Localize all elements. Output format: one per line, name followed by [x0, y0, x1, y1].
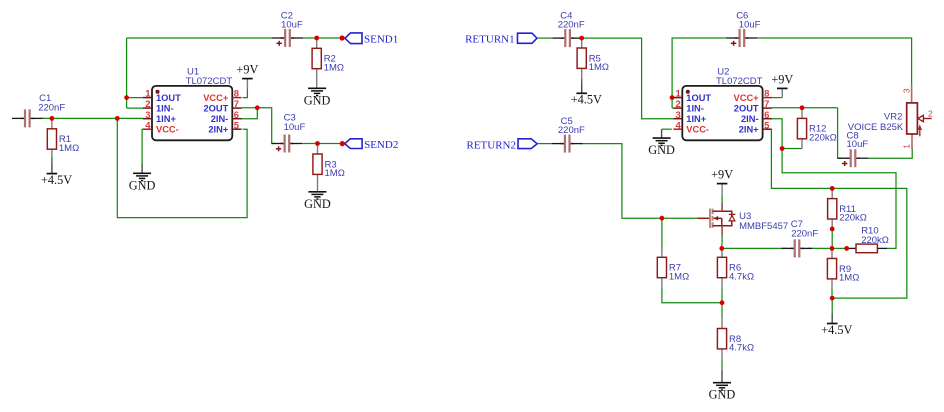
- wire C8 to VR2 pin1: [868, 148, 912, 158]
- svg-text:220kΩ: 220kΩ: [809, 132, 837, 143]
- wire R9 leads: [831, 248, 833, 258]
- wire U3 drain +9V: [721, 184, 723, 196]
- svg-text:4: 4: [145, 120, 151, 131]
- svg-text:220nF: 220nF: [558, 20, 585, 31]
- power +9V: [236, 63, 258, 79]
- wire R2 leads: [316, 38, 318, 48]
- resistor R9: [827, 259, 859, 284]
- wire U2 pin7 to C8 and VR2: [772, 107, 838, 109]
- capacitor C5: [552, 116, 585, 153]
- svg-text:7: 7: [764, 99, 769, 110]
- resistor R11: [828, 199, 867, 224]
- resistor R3: [313, 154, 345, 179]
- svg-text:5: 5: [234, 120, 240, 131]
- svg-text:3: 3: [145, 110, 150, 121]
- capacitor C2: [272, 10, 303, 47]
- svg-text:10uF: 10uF: [284, 122, 306, 133]
- junction end dot SEND2: [340, 141, 345, 146]
- svg-text:+9V: +9V: [236, 63, 258, 77]
- resistor R2: [312, 48, 344, 73]
- resistor R8: [717, 329, 754, 354]
- wire U2 pin8 to +9V: [772, 97, 783, 99]
- wire U2 +9V stem: [781, 89, 783, 98]
- svg-text:6: 6: [234, 110, 239, 121]
- op-amp U1 TL072CDT: [143, 67, 242, 141]
- svg-text:GND: GND: [129, 178, 156, 192]
- wire C6 to VR2 pin3: [757, 38, 912, 85]
- svg-text:VCC-: VCC-: [156, 125, 179, 135]
- svg-text:10uF: 10uF: [281, 19, 303, 30]
- resistor R7: [657, 257, 689, 282]
- svg-text:MMBF5457: MMBF5457: [739, 221, 788, 232]
- resistor R10: [856, 226, 889, 253]
- ground below R2: [304, 88, 331, 107]
- svg-text:SEND1: SEND1: [364, 34, 398, 46]
- capacitor C7: [782, 219, 819, 258]
- wire pin6 to R12 bottom: [782, 148, 802, 150]
- svg-text:4: 4: [676, 120, 682, 131]
- power +4.5V: [41, 173, 72, 187]
- wire U3 source to C7: [722, 247, 788, 249]
- wire RETURN2 to C5: [537, 143, 552, 145]
- svg-text:1: 1: [145, 89, 151, 100]
- junction J U3 source: [719, 246, 724, 251]
- svg-text:+4.5V: +4.5V: [821, 323, 852, 337]
- svg-text:1IN-: 1IN-: [686, 104, 704, 114]
- capacitor C4: [552, 11, 585, 48]
- svg-text:8: 8: [764, 89, 769, 100]
- svg-text:1MΩ: 1MΩ: [59, 143, 79, 154]
- wire U2 pin6 net: [772, 119, 897, 249]
- hierarchical label RETURN2: [467, 139, 538, 152]
- svg-text:1: 1: [901, 144, 911, 149]
- svg-text:1IN+: 1IN+: [686, 114, 706, 124]
- wire R10 leads: [847, 247, 856, 249]
- svg-text:2OUT: 2OUT: [734, 104, 759, 114]
- svg-text:220kΩ: 220kΩ: [839, 213, 867, 224]
- svg-text:1IN+: 1IN+: [156, 114, 176, 124]
- svg-text:3: 3: [676, 110, 681, 121]
- svg-text:+4.5V: +4.5V: [41, 173, 72, 187]
- junction J pin6-R12b: [780, 146, 785, 151]
- wire pin1-pin2 feedback vertical: [127, 38, 143, 98]
- wire U2 pin4 to GND: [662, 128, 672, 130]
- svg-text:+4.5V: +4.5V: [571, 93, 602, 107]
- wire bottom feedback loop: [117, 118, 247, 217]
- power +9V: [711, 168, 733, 184]
- svg-text:VOICE B25K: VOICE B25K: [848, 122, 904, 133]
- junction J R9 bottom: [830, 296, 835, 301]
- svg-text:VCC+: VCC+: [203, 93, 229, 103]
- junction J pin1: [124, 95, 129, 100]
- svg-text:GND: GND: [304, 93, 331, 107]
- svg-text:220nF: 220nF: [791, 228, 818, 239]
- svg-text:VR2: VR2: [884, 111, 902, 122]
- junction J R6 bottom: [720, 300, 725, 305]
- svg-text:1MΩ: 1MΩ: [589, 62, 609, 73]
- svg-text:2OUT: 2OUT: [204, 104, 229, 114]
- wire U3 source: [721, 236, 723, 244]
- svg-text:GND: GND: [648, 143, 675, 157]
- wire R7 bottom to R6 bottom: [662, 289, 722, 303]
- ground below R8: [709, 383, 736, 402]
- junction J C3-R3: [315, 141, 320, 146]
- svg-text:1MΩ: 1MΩ: [325, 168, 345, 179]
- junction J R11 bottom: [830, 227, 835, 232]
- wire pin7 down to C8: [838, 108, 844, 158]
- svg-text:220nF: 220nF: [38, 103, 65, 114]
- svg-text:RETURN1: RETURN1: [465, 34, 515, 46]
- wire U2 pin5 net: [771, 129, 906, 298]
- svg-text:+9V: +9V: [771, 72, 793, 86]
- ground below U1 pin4: [129, 173, 156, 192]
- svg-text:6: 6: [764, 110, 769, 121]
- capacitor C6: [727, 11, 761, 47]
- svg-text:2: 2: [928, 108, 933, 118]
- junction J pin7: [255, 105, 260, 110]
- svg-text:GND: GND: [304, 197, 331, 211]
- junction J R9 top: [830, 246, 835, 251]
- svg-text:1IN-: 1IN-: [156, 104, 174, 114]
- wire C3 to SEND2: [302, 143, 342, 145]
- svg-text:220nF: 220nF: [558, 125, 585, 136]
- svg-text:3: 3: [901, 88, 911, 93]
- svg-text:VCC-: VCC-: [686, 125, 709, 135]
- svg-text:10uF: 10uF: [847, 139, 869, 150]
- svg-text:+9V: +9V: [711, 168, 733, 182]
- resistor R6: [717, 257, 754, 282]
- capacitor C3: [272, 113, 306, 153]
- op-amp U2 TL072CDT: [673, 67, 772, 141]
- svg-text:10uF: 10uF: [739, 20, 761, 31]
- junction J C2-R2: [314, 36, 319, 41]
- svg-text:2IN-: 2IN-: [741, 114, 759, 124]
- power +4.5V: [571, 93, 602, 107]
- wire C4 to U2 pin3: [579, 38, 674, 119]
- svg-text:220kΩ: 220kΩ: [861, 235, 889, 246]
- ground below U2 pin4: [648, 138, 675, 157]
- transistor U3 MMBF5457: [698, 203, 789, 236]
- hierarchical label RETURN1: [465, 33, 537, 45]
- junction end dot SEND1: [340, 35, 345, 40]
- wire R3 leads: [317, 144, 319, 155]
- svg-text:2: 2: [145, 99, 150, 110]
- wire RETURN1 to C4: [537, 37, 552, 39]
- wire below R9 junction: [831, 298, 833, 313]
- junction J gate-R7: [660, 216, 665, 221]
- power +9V: [771, 72, 793, 88]
- svg-text:TL072CDT: TL072CDT: [186, 76, 233, 87]
- svg-text:1MΩ: 1MΩ: [839, 273, 859, 284]
- svg-text:4.7kΩ: 4.7kΩ: [729, 271, 754, 282]
- svg-text:1OUT: 1OUT: [686, 93, 711, 103]
- wire pin2 connect: [127, 107, 143, 109]
- wire C5 to U3 gate: [581, 144, 698, 219]
- potentiometer VR2 VOICE B25K: [848, 85, 933, 149]
- junction J pin5-R11: [830, 186, 835, 191]
- wire R1 leads: [51, 118, 53, 128]
- svg-text:GND: GND: [709, 388, 736, 402]
- svg-text:1OUT: 1OUT: [156, 93, 181, 103]
- wire R11 leads: [831, 188, 833, 198]
- capacitor C8: [838, 131, 869, 168]
- junction J C1-R1: [50, 116, 55, 121]
- svg-text:7: 7: [234, 99, 239, 110]
- ground below R3: [304, 192, 331, 211]
- capacitor C1: [12, 93, 65, 127]
- svg-text:2: 2: [676, 99, 681, 110]
- wire input line to U1 pin3: [42, 117, 144, 119]
- junction J U2 pin1: [670, 95, 675, 100]
- hierarchical label SEND2: [345, 139, 399, 151]
- svg-text:TL072CDT: TL072CDT: [716, 76, 763, 87]
- svg-text:1: 1: [676, 89, 682, 100]
- power +4.5V: [821, 323, 852, 337]
- junction J R10 left: [844, 246, 849, 251]
- wire U1 pin4 to GND: [141, 129, 144, 163]
- wire R6 leads: [721, 248, 723, 257]
- hierarchical label SEND1: [345, 33, 398, 46]
- svg-text:8: 8: [234, 89, 239, 100]
- junction J pin7-R12: [800, 105, 805, 110]
- wire C2 to SEND1: [302, 37, 342, 39]
- wire R12 leads: [801, 108, 803, 119]
- wire U1 gnd stem: [141, 163, 143, 172]
- wire pin2 connect U2: [672, 107, 673, 109]
- wire pin8 stem gray: [246, 79, 248, 88]
- svg-text:RETURN2: RETURN2: [467, 139, 517, 151]
- svg-text:SEND2: SEND2: [364, 139, 398, 151]
- svg-text:2IN+: 2IN+: [739, 125, 759, 135]
- wire U1 pin6 feedback: [241, 108, 257, 119]
- junction J C4-R5: [579, 36, 584, 41]
- resistor R1: [47, 129, 79, 154]
- resistor R12: [797, 118, 836, 143]
- junction J main-loop: [115, 116, 120, 121]
- svg-text:1MΩ: 1MΩ: [324, 62, 344, 73]
- wire U2 pin1 feedback to C6: [672, 38, 727, 98]
- wire U1 pin8 to +9V: [243, 88, 248, 97]
- wire C7 to R9 junction: [808, 247, 847, 249]
- wire U1 pin7 to C3: [241, 108, 274, 144]
- svg-text:2IN+: 2IN+: [208, 125, 228, 135]
- svg-text:4.7kΩ: 4.7kΩ: [729, 343, 754, 354]
- svg-text:1MΩ: 1MΩ: [669, 271, 689, 282]
- wire R7 leads: [661, 218, 663, 250]
- svg-text:VCC+: VCC+: [734, 93, 760, 103]
- wire R11 bottom to C7 line: [831, 229, 833, 249]
- resistor R5: [577, 48, 609, 73]
- svg-text:5: 5: [764, 120, 770, 131]
- wire R5 leads: [581, 38, 583, 48]
- wire top wire to C2: [127, 37, 273, 39]
- svg-text:2IN-: 2IN-: [211, 114, 229, 124]
- wire R8 leads: [721, 303, 723, 319]
